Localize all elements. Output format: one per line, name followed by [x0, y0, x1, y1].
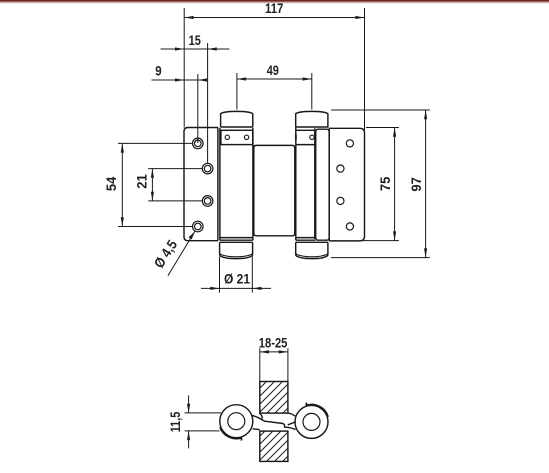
right plate wrap strip: [316, 129, 330, 240]
svg-text:75: 75: [377, 176, 393, 191]
barrel B1 top collar band: [221, 130, 253, 144]
right barrel wrap arc: [306, 403, 328, 417]
strap curl near left door face: [260, 413, 263, 419]
dim 9 line: [152, 79, 207, 81]
dim 18-25 ext left: [259, 348, 261, 381]
right strap top from door: [289, 413, 296, 416]
dim 18-25 ext right: [287, 348, 289, 381]
strap top edge right: [288, 422, 296, 425]
barrel B2 left edge: [295, 128, 297, 240]
dim 54 ext top: [118, 142, 193, 144]
hole R3: [337, 197, 344, 204]
arrow 49 right: [303, 77, 312, 80]
svg-text:117: 117: [265, 0, 284, 16]
dim 49 ext right: [311, 73, 313, 110]
arrow 97 bottom: [424, 248, 427, 257]
barrel B2 bottom cap inner arc: [296, 254, 328, 257]
band hole b1b: [244, 135, 248, 139]
arrow dia21 right (outside): [252, 287, 261, 290]
dim dia21 ext right: [251, 257, 253, 293]
dim 9 ext: [197, 74, 199, 143]
left barrel wrap arc: [220, 427, 242, 440]
arrow 18-25 left: [260, 350, 269, 353]
arrow 49 left: [237, 77, 246, 80]
arrow 15 right (outside): [208, 47, 217, 50]
arrow dia21 left (outside): [210, 287, 219, 290]
arrow 11,5 bottom (outside): [187, 431, 190, 440]
dim 97 line: [425, 110, 427, 258]
arrow leader dia4.5: [189, 231, 196, 239]
barrel B1 bottom collar lines: [220, 238, 253, 241]
arrow 54 bottom: [121, 217, 124, 226]
hole R1: [346, 140, 353, 147]
dim 21 line: [151, 169, 153, 201]
band hole b1a: [225, 135, 229, 139]
arrow 21 top: [151, 169, 154, 178]
dim 21 ext top: [148, 168, 202, 170]
barrel B2 top cap: [296, 111, 328, 127]
arrow 15 left (outside): [175, 47, 184, 50]
dim 97 ext bottom: [331, 257, 430, 259]
dim 54 ext bottom: [118, 226, 193, 228]
barrel B2 bottom collar lines: [296, 238, 316, 241]
svg-text:9: 9: [155, 63, 162, 79]
arrow 11,5 top (outside): [187, 404, 190, 413]
dim 75 ext bottom: [362, 240, 399, 242]
dim 117 ext left: [183, 8, 185, 128]
arrow 9 right (outside): [198, 78, 207, 81]
dim 15 line: [161, 48, 230, 50]
hole L2: [202, 163, 213, 174]
band hole b2a (edge sliver): [295, 135, 297, 140]
left barrel inner circle: [228, 413, 245, 430]
left plate right edge: [217, 128, 219, 241]
arrow 21 bottom: [151, 192, 154, 201]
right barrel outer circle: [295, 405, 328, 438]
svg-text:11,5: 11,5: [167, 412, 183, 433]
barrel B1 bottom cap: [220, 242, 253, 258]
dim 75 line: [394, 128, 396, 241]
leader dia4.5: [168, 231, 195, 276]
dim dia21 ext left: [219, 257, 221, 293]
dim 75 ext top: [366, 127, 399, 129]
left barrel outer circle: [220, 405, 253, 438]
svg-text:Ø 21: Ø 21: [224, 271, 250, 287]
arrow 117 left: [184, 16, 193, 19]
barrel B1 body: [220, 128, 253, 240]
arrow 75 top: [393, 128, 396, 137]
door section lower hatched block: [260, 431, 288, 461]
arrow 117 right: [355, 16, 364, 19]
svg-text:97: 97: [408, 177, 424, 192]
dim dia21 line: [201, 287, 271, 289]
barrel B1 cap bottom line: [221, 126, 253, 128]
svg-text:18-25: 18-25: [259, 334, 288, 350]
dim 11,5 ext bottom: [185, 430, 220, 432]
band hole b2b: [310, 135, 314, 139]
dim 97 ext top: [331, 109, 430, 111]
hole R4: [346, 223, 353, 230]
arrow 9 left (outside): [175, 78, 184, 81]
dim 49 ext left: [236, 73, 238, 110]
strap bottom edge left: [253, 428, 260, 431]
barrel B2 right edge: [314, 128, 316, 239]
decorative top red bar: [0, 0, 549, 4]
hole L4: [193, 221, 204, 232]
dim 49 line: [237, 78, 312, 80]
dim 117 ext right: [364, 8, 366, 133]
barrel B1 top cap: [221, 111, 253, 127]
arrow 75 bottom: [393, 231, 396, 240]
hole L1: [193, 138, 204, 149]
svg-text:15: 15: [189, 32, 201, 48]
dim 21 ext bottom: [148, 200, 202, 202]
dim 117 line: [184, 17, 364, 19]
strap break curl: [283, 424, 285, 428]
left leaf plate: [184, 128, 218, 241]
central spring housing: [254, 145, 295, 236]
strap top edge left S: [252, 416, 283, 424]
dim 11,5 ext top: [185, 412, 221, 414]
right strap bottom from door: [285, 427, 295, 429]
hole L3: [202, 196, 213, 207]
arrow 18-25 right: [279, 350, 288, 353]
svg-text:54: 54: [103, 176, 119, 191]
dim 18-25 line: [260, 351, 288, 353]
dim 11,5 line top arrow part: [188, 395, 190, 413]
svg-text:49: 49: [267, 62, 279, 78]
hole R2: [337, 165, 344, 172]
right leaf plate face: [329, 128, 364, 241]
right barrel inner circle: [303, 413, 320, 430]
svg-text:21: 21: [133, 174, 149, 189]
dim 54 line: [121, 143, 123, 226]
barrel B2 top collar band: [296, 130, 315, 144]
barrel B1 bottom cap inner arc: [220, 254, 252, 257]
dim 11,5 line bottom arrow part: [188, 431, 190, 449]
door section upper hatched block: [260, 382, 288, 414]
arrow 97 top: [424, 110, 427, 119]
arrow 54 top: [121, 143, 124, 152]
barrel B2 bottom cap: [296, 242, 328, 258]
dim 15 ext: [207, 43, 209, 164]
